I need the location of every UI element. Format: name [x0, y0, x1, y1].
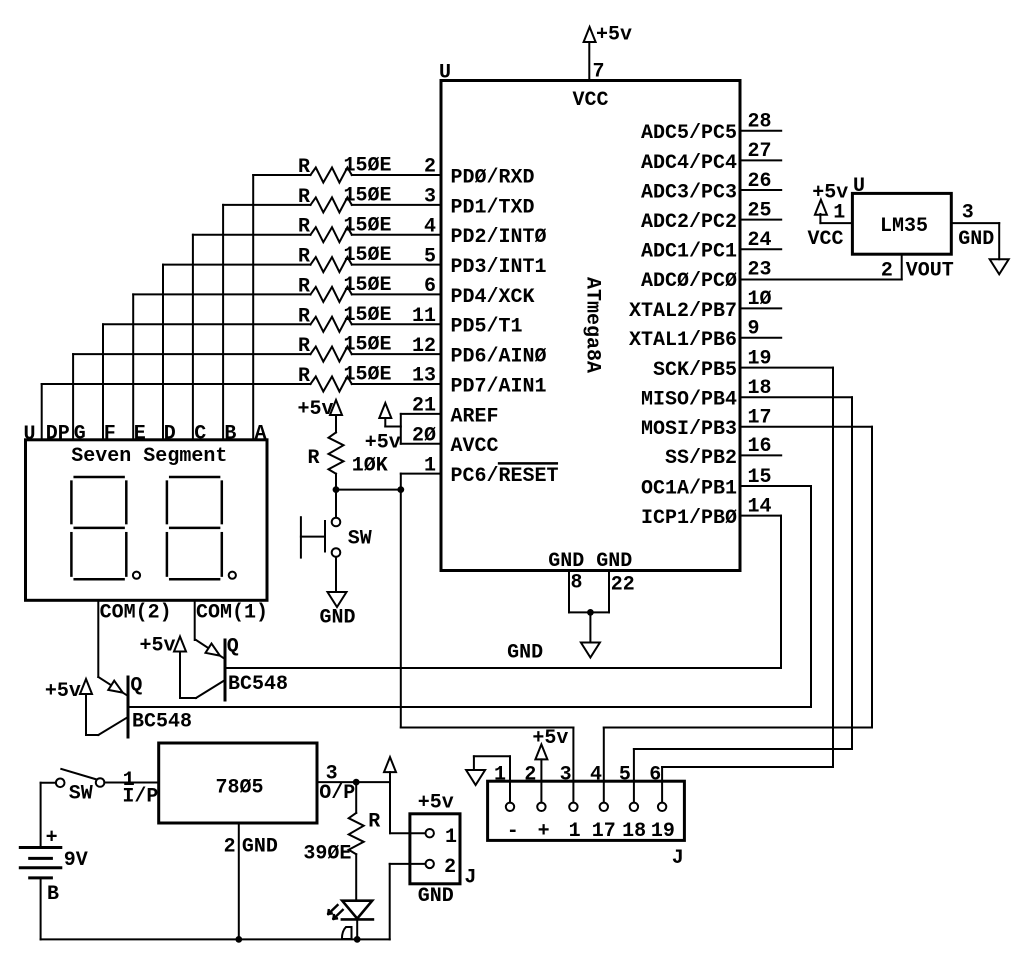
connector J pin 2 wire: [390, 856, 456, 879]
svg-text:23: 23: [748, 259, 772, 282]
wire COM(2) down: [97, 600, 99, 677]
svg-text:J: J: [464, 866, 476, 889]
pin label AREF (pin 21): [451, 405, 499, 428]
IC U LM35 body: [852, 175, 951, 254]
svg-text:PD2/INTØ: PD2/INTØ: [451, 226, 547, 249]
svg-text:R: R: [298, 186, 310, 209]
resistor R 150E row pin 6: [298, 274, 392, 302]
svg-text:GND: GND: [958, 228, 994, 251]
connector J net label 19: [651, 820, 675, 843]
svg-text:13: 13: [412, 365, 436, 388]
svg-text:AREF: AREF: [451, 405, 499, 428]
svg-text:PD7/AIN1: PD7/AIN1: [451, 375, 547, 398]
pin label PD1/TXD (pin 3): [451, 196, 535, 219]
svg-text:Q: Q: [227, 636, 239, 659]
svg-text:E: E: [134, 423, 146, 446]
svg-text:3: 3: [962, 201, 974, 224]
pin label PD7/AIN1 (pin 13): [451, 375, 547, 398]
svg-text:COM(1): COM(1): [196, 602, 268, 625]
push-button switch SW (reset): [301, 517, 372, 557]
seven segment digit 2 segments: [167, 477, 236, 579]
regulator 7805 body: [159, 743, 317, 823]
svg-text:MISO/PB4: MISO/PB4: [641, 389, 737, 412]
svg-text:+5v: +5v: [418, 792, 454, 815]
svg-text:G: G: [74, 423, 86, 446]
wire RESET vertical to connector: [400, 490, 402, 728]
connector J net label -: [507, 820, 519, 843]
connector J net label +: [538, 820, 550, 843]
connector J net label 1: [569, 820, 581, 843]
resistor R 390E: [303, 782, 380, 901]
svg-text:R: R: [368, 811, 380, 834]
labels COM(2) COM(1): [100, 602, 268, 625]
wire segment display column 3 (vertical x=192.9): [193, 235, 311, 440]
svg-text:U: U: [439, 62, 451, 85]
pin label MOSI/PB3 (pin 17): [641, 407, 772, 442]
svg-text:F: F: [104, 423, 116, 446]
svg-text:ADC1/PC1: ADC1/PC1: [641, 241, 737, 264]
svg-text:O/P: O/P: [319, 782, 355, 805]
svg-text:R: R: [298, 156, 310, 179]
label ATmega8A (vertical): [580, 277, 603, 373]
pin label PD2/INT0 (pin 4): [451, 226, 547, 249]
wire RESET to J pin3: [401, 728, 574, 803]
wire segment display column 5 (vertical x=133.2): [133, 294, 310, 439]
ground symbol LM35: [990, 259, 1009, 274]
svg-text:SW: SW: [348, 528, 372, 551]
display pin label C: [194, 423, 206, 446]
resistor R 150E row pin 4: [298, 214, 392, 242]
wire Q collector to pin 15: [128, 706, 811, 708]
pin label MISO/PB4 (pin 18): [641, 377, 772, 412]
svg-text:SS/PB2: SS/PB2: [665, 447, 737, 470]
+5v symbol above R 10K: [298, 398, 343, 432]
display pin label B: [224, 423, 236, 446]
connector J pin number 1: [494, 764, 506, 787]
wire pin 19 SCK/PB5 to J pin6: [662, 368, 833, 803]
svg-text:3: 3: [560, 764, 572, 787]
svg-text:2: 2: [881, 260, 893, 283]
svg-text:1: 1: [445, 826, 457, 849]
svg-text:XTAL1/PB6: XTAL1/PB6: [629, 329, 737, 352]
svg-text:R: R: [298, 246, 310, 269]
svg-text:U: U: [24, 423, 36, 446]
svg-text:R: R: [307, 447, 319, 470]
svg-text:J: J: [672, 847, 684, 870]
svg-text:22: 22: [611, 574, 635, 597]
pin 27 ADC4/PC4 stub: [641, 140, 781, 175]
svg-text:3: 3: [424, 186, 436, 209]
IC ground pins 8 and 22: [548, 550, 635, 641]
wire pin 18 MISO/PB4 to J pin5: [634, 397, 852, 802]
svg-text:78Ø5: 78Ø5: [216, 777, 264, 800]
ground symbol IC GND: [507, 642, 600, 665]
svg-text:BC548: BC548: [228, 673, 288, 696]
svg-text:+5v: +5v: [45, 680, 81, 703]
svg-text:5: 5: [424, 245, 436, 268]
pin 7 VCC with +5v symbol: [573, 24, 633, 113]
wire COM(1) down: [194, 600, 196, 640]
display U Seven Segment body: [24, 423, 268, 600]
wire battery negative down: [40, 878, 42, 940]
svg-text:PD1/TXD: PD1/TXD: [451, 196, 535, 219]
AREF/AVCC +5v bracket pins 21 20: [365, 395, 441, 455]
connector J pin number 6: [649, 764, 661, 787]
svg-text:+5v: +5v: [532, 727, 568, 750]
svg-text:11: 11: [412, 305, 436, 328]
pin 10 XTAL2/PB7 stub: [629, 288, 781, 323]
svg-text:ADC4/PC4: ADC4/PC4: [641, 152, 737, 175]
wire resistor to IC pin 2 with number: [352, 156, 441, 179]
connector J circle pin 4: [600, 803, 608, 811]
wire pin 15 OC1A/PB1 down: [740, 486, 811, 707]
svg-text:DP: DP: [46, 423, 70, 446]
node RESET junction wires: [333, 486, 405, 493]
pin 28 ADC5/PC5 stub: [641, 111, 781, 146]
svg-text:PD4/XCK: PD4/XCK: [451, 286, 535, 309]
pin label PC6/RESET (pin 1) with overline: [451, 463, 559, 488]
svg-text:MOSI/PB3: MOSI/PB3: [641, 418, 737, 441]
svg-text:+5v: +5v: [139, 635, 175, 658]
svg-text:+: +: [538, 820, 550, 843]
svg-text:1: 1: [424, 454, 436, 477]
wire resistor to IC pin 3 with number: [352, 186, 441, 209]
connector J pin number 4: [590, 764, 602, 787]
svg-text:9V: 9V: [64, 849, 88, 872]
svg-text:21: 21: [412, 395, 436, 418]
+5v symbol at 7805 output: [384, 757, 396, 782]
connector J net label 17: [592, 820, 616, 843]
svg-text:XTAL2/PB7: XTAL2/PB7: [629, 300, 737, 323]
svg-text:D: D: [164, 423, 176, 446]
svg-text:VCC: VCC: [573, 89, 609, 112]
pin label ADC0/PC0 (pin 23): [641, 259, 772, 294]
svg-text:+: +: [46, 826, 58, 849]
connector J circle pin 2: [537, 803, 545, 811]
svg-text:OC1A/PB1: OC1A/PB1: [641, 477, 737, 500]
connector J pin number 3: [560, 764, 572, 787]
wire segment display column 4 (vertical x=163.0): [163, 265, 311, 440]
svg-text:ADCØ/PCØ: ADCØ/PCØ: [641, 270, 737, 293]
svg-text:Seven Segment: Seven Segment: [71, 445, 227, 468]
wire segment display column 8 (vertical x=41.7): [42, 384, 311, 440]
svg-text:2: 2: [524, 764, 536, 787]
svg-text:PD6/AINØ: PD6/AINØ: [451, 346, 547, 369]
wire switch to battery: [41, 783, 56, 848]
resistor R 150E row pin 11: [298, 304, 392, 332]
connector J net label 18: [622, 820, 646, 843]
display pin label A: [255, 423, 267, 446]
svg-text:R: R: [298, 365, 310, 388]
svg-text:I/P: I/P: [122, 786, 158, 809]
svg-text:GND: GND: [320, 607, 356, 630]
wire resistor to IC pin 11 with number: [352, 305, 441, 328]
pin 24 ADC1/PC1 stub: [641, 229, 781, 264]
connector J pin 1 wire: [390, 782, 457, 849]
pin label PD0/RXD (pin 2): [451, 166, 535, 189]
svg-text:4: 4: [424, 215, 436, 238]
ground below SW: [320, 557, 356, 630]
pin label SCK/PB5 (pin 19): [653, 347, 772, 382]
wire pin 14 ICP1/PB0 down: [740, 516, 781, 668]
display pin label F: [104, 423, 116, 446]
svg-text:2: 2: [444, 856, 456, 879]
svg-text:VOUT: VOUT: [906, 260, 954, 283]
7805 pin 3 output wire: [317, 763, 390, 806]
pin label PD6/AIN0 (pin 12): [451, 346, 547, 369]
svg-text:39ØE: 39ØE: [303, 842, 351, 865]
svg-text:2: 2: [224, 836, 236, 859]
wire segment display column 6 (vertical x=103.0): [103, 324, 311, 440]
svg-text:SW: SW: [69, 782, 93, 805]
battery B 9V: [20, 826, 87, 906]
pin label PD3/INT1 (pin 5): [451, 256, 547, 279]
svg-text:4: 4: [590, 764, 602, 787]
svg-text:A: A: [255, 423, 267, 446]
svg-text:+5v: +5v: [298, 398, 334, 421]
wire pin 17 MOSI/PB3 to J pin4: [604, 427, 872, 803]
connector J pin2 +5v: [532, 727, 568, 803]
wire 10K to switch: [335, 490, 337, 518]
svg-text:ICP1/PBØ: ICP1/PBØ: [641, 507, 737, 530]
svg-text:8: 8: [571, 572, 583, 595]
svg-text:19: 19: [651, 820, 675, 843]
pin label OC1A/PB1 (pin 15): [641, 466, 772, 501]
svg-text:ADC3/PC3: ADC3/PC3: [641, 181, 737, 204]
IC U ATmega8A body: [439, 62, 740, 571]
svg-text:+5v: +5v: [596, 24, 632, 47]
svg-text:GND: GND: [596, 550, 632, 573]
connector J circle pin 3: [569, 803, 577, 811]
svg-text:GND: GND: [242, 836, 278, 859]
pin 16 SS/PB2 stub: [665, 435, 781, 470]
wire segment display column 2 (vertical x=223.1): [223, 205, 310, 440]
transistor Q BC548 (COM1 driver): [139, 635, 288, 701]
wire segment display column 1 (vertical x=253.2): [253, 175, 310, 440]
connector J 2-pin body: [410, 792, 477, 908]
LM35 pin 1 VCC +5v: [808, 181, 853, 251]
display pin label D: [164, 423, 176, 446]
svg-text:R: R: [298, 335, 310, 358]
svg-text:AVCC: AVCC: [451, 435, 499, 458]
svg-text:GND: GND: [548, 550, 584, 573]
resistor R 150E row pin 2: [298, 155, 392, 183]
pin 1 stub wire: [401, 454, 441, 489]
seven segment digit 1 segments: [71, 477, 140, 579]
svg-text:GND: GND: [507, 642, 543, 665]
wire Q collector to pin 14: [225, 667, 781, 669]
svg-text:C: C: [194, 423, 206, 446]
pin label ICP1/PB0 (pin 14): [641, 495, 772, 530]
wire resistor to IC pin 4 with number: [352, 215, 441, 238]
pin 9 XTAL1/PB6 stub: [629, 318, 781, 353]
display pin label G: [74, 423, 86, 446]
svg-text:B: B: [224, 423, 236, 446]
switch SW (power): [56, 769, 104, 805]
svg-text:6: 6: [424, 275, 436, 298]
connector J circle pin 5: [630, 803, 638, 811]
resistor R 150E row pin 5: [298, 244, 392, 272]
svg-text:-: -: [507, 820, 519, 843]
wire segment display column 7 (vertical x=73.1): [73, 354, 310, 440]
svg-text:R: R: [298, 305, 310, 328]
svg-text:18: 18: [622, 820, 646, 843]
wire ground rail bottom: [41, 938, 390, 940]
display pin label DP: [46, 423, 70, 446]
svg-text:ADC2/PC2: ADC2/PC2: [641, 211, 737, 234]
wire rail up to connector J pin 2: [389, 864, 391, 940]
svg-text:PC6/RESET: PC6/RESET: [451, 465, 559, 488]
LM35 pin 2 VOUT wire to ADC0: [740, 254, 954, 283]
connector J pin number 5: [619, 764, 631, 787]
pin 26 ADC3/PC3 stub: [641, 170, 781, 205]
wire resistor to IC pin 13 with number: [352, 365, 441, 388]
pin label PD4/XCK (pin 6): [451, 286, 535, 309]
svg-text:BC548: BC548: [132, 711, 192, 734]
svg-text:B: B: [47, 883, 59, 906]
svg-text:6: 6: [649, 764, 661, 787]
LED D power indicator: [328, 901, 373, 943]
svg-text:+5v: +5v: [365, 432, 401, 455]
svg-text:1: 1: [569, 820, 581, 843]
transistor Q BC548 (COM2 driver): [45, 675, 192, 738]
svg-text:1: 1: [494, 764, 506, 787]
svg-text:COM(2): COM(2): [100, 602, 172, 625]
svg-text:PDØ/RXD: PDØ/RXD: [451, 166, 535, 189]
7805 pin 2 GND wire: [224, 823, 278, 943]
connector J pin number 2: [524, 764, 536, 787]
svg-text:PD3/INT1: PD3/INT1: [451, 256, 547, 279]
svg-text:1ØK: 1ØK: [352, 455, 388, 478]
svg-text:LM35: LM35: [880, 215, 928, 238]
resistor R 150E row pin 12: [298, 334, 392, 362]
svg-text:12: 12: [412, 335, 436, 358]
svg-text:2: 2: [424, 156, 436, 179]
svg-text:1: 1: [833, 201, 845, 224]
wire resistor to IC pin 6 with number: [352, 275, 441, 298]
svg-text:5: 5: [619, 764, 631, 787]
svg-text:ADC5/PC5: ADC5/PC5: [641, 122, 737, 145]
connector J circle pin 6: [658, 803, 666, 811]
svg-text:U: U: [853, 175, 865, 198]
pin 25 ADC2/PC2 stub: [641, 199, 781, 234]
7805 pin 1 input wire: [104, 769, 158, 809]
svg-text:7: 7: [593, 61, 605, 84]
pin label PD5/T1 (pin 11): [451, 316, 523, 339]
display pin label E: [134, 423, 146, 446]
svg-text:R: R: [298, 216, 310, 239]
svg-text:SCK/PB5: SCK/PB5: [653, 359, 737, 382]
connector J 6-pin body: [488, 781, 685, 870]
svg-text:PD5/T1: PD5/T1: [451, 316, 523, 339]
pin label AVCC (pin 20): [451, 435, 499, 458]
svg-text:R: R: [298, 275, 310, 298]
connector J circle pin 1: [506, 803, 514, 811]
resistor R 150E row pin 3: [298, 185, 392, 213]
LM35 pin 3 GND wire: [951, 201, 999, 259]
resistor R 150E row pin 13: [298, 364, 392, 392]
wire resistor to IC pin 5 with number: [352, 245, 441, 268]
svg-text:2Ø: 2Ø: [412, 424, 436, 447]
svg-text:VCC: VCC: [808, 228, 844, 251]
svg-text:17: 17: [592, 820, 616, 843]
svg-text:Q: Q: [130, 675, 142, 698]
svg-text:ATmega8A: ATmega8A: [580, 277, 603, 373]
resistor R 10K: [307, 432, 387, 489]
svg-text:GND: GND: [418, 885, 454, 908]
wire resistor to IC pin 12 with number: [352, 335, 441, 358]
connector J pin1 ground: [466, 756, 510, 802]
